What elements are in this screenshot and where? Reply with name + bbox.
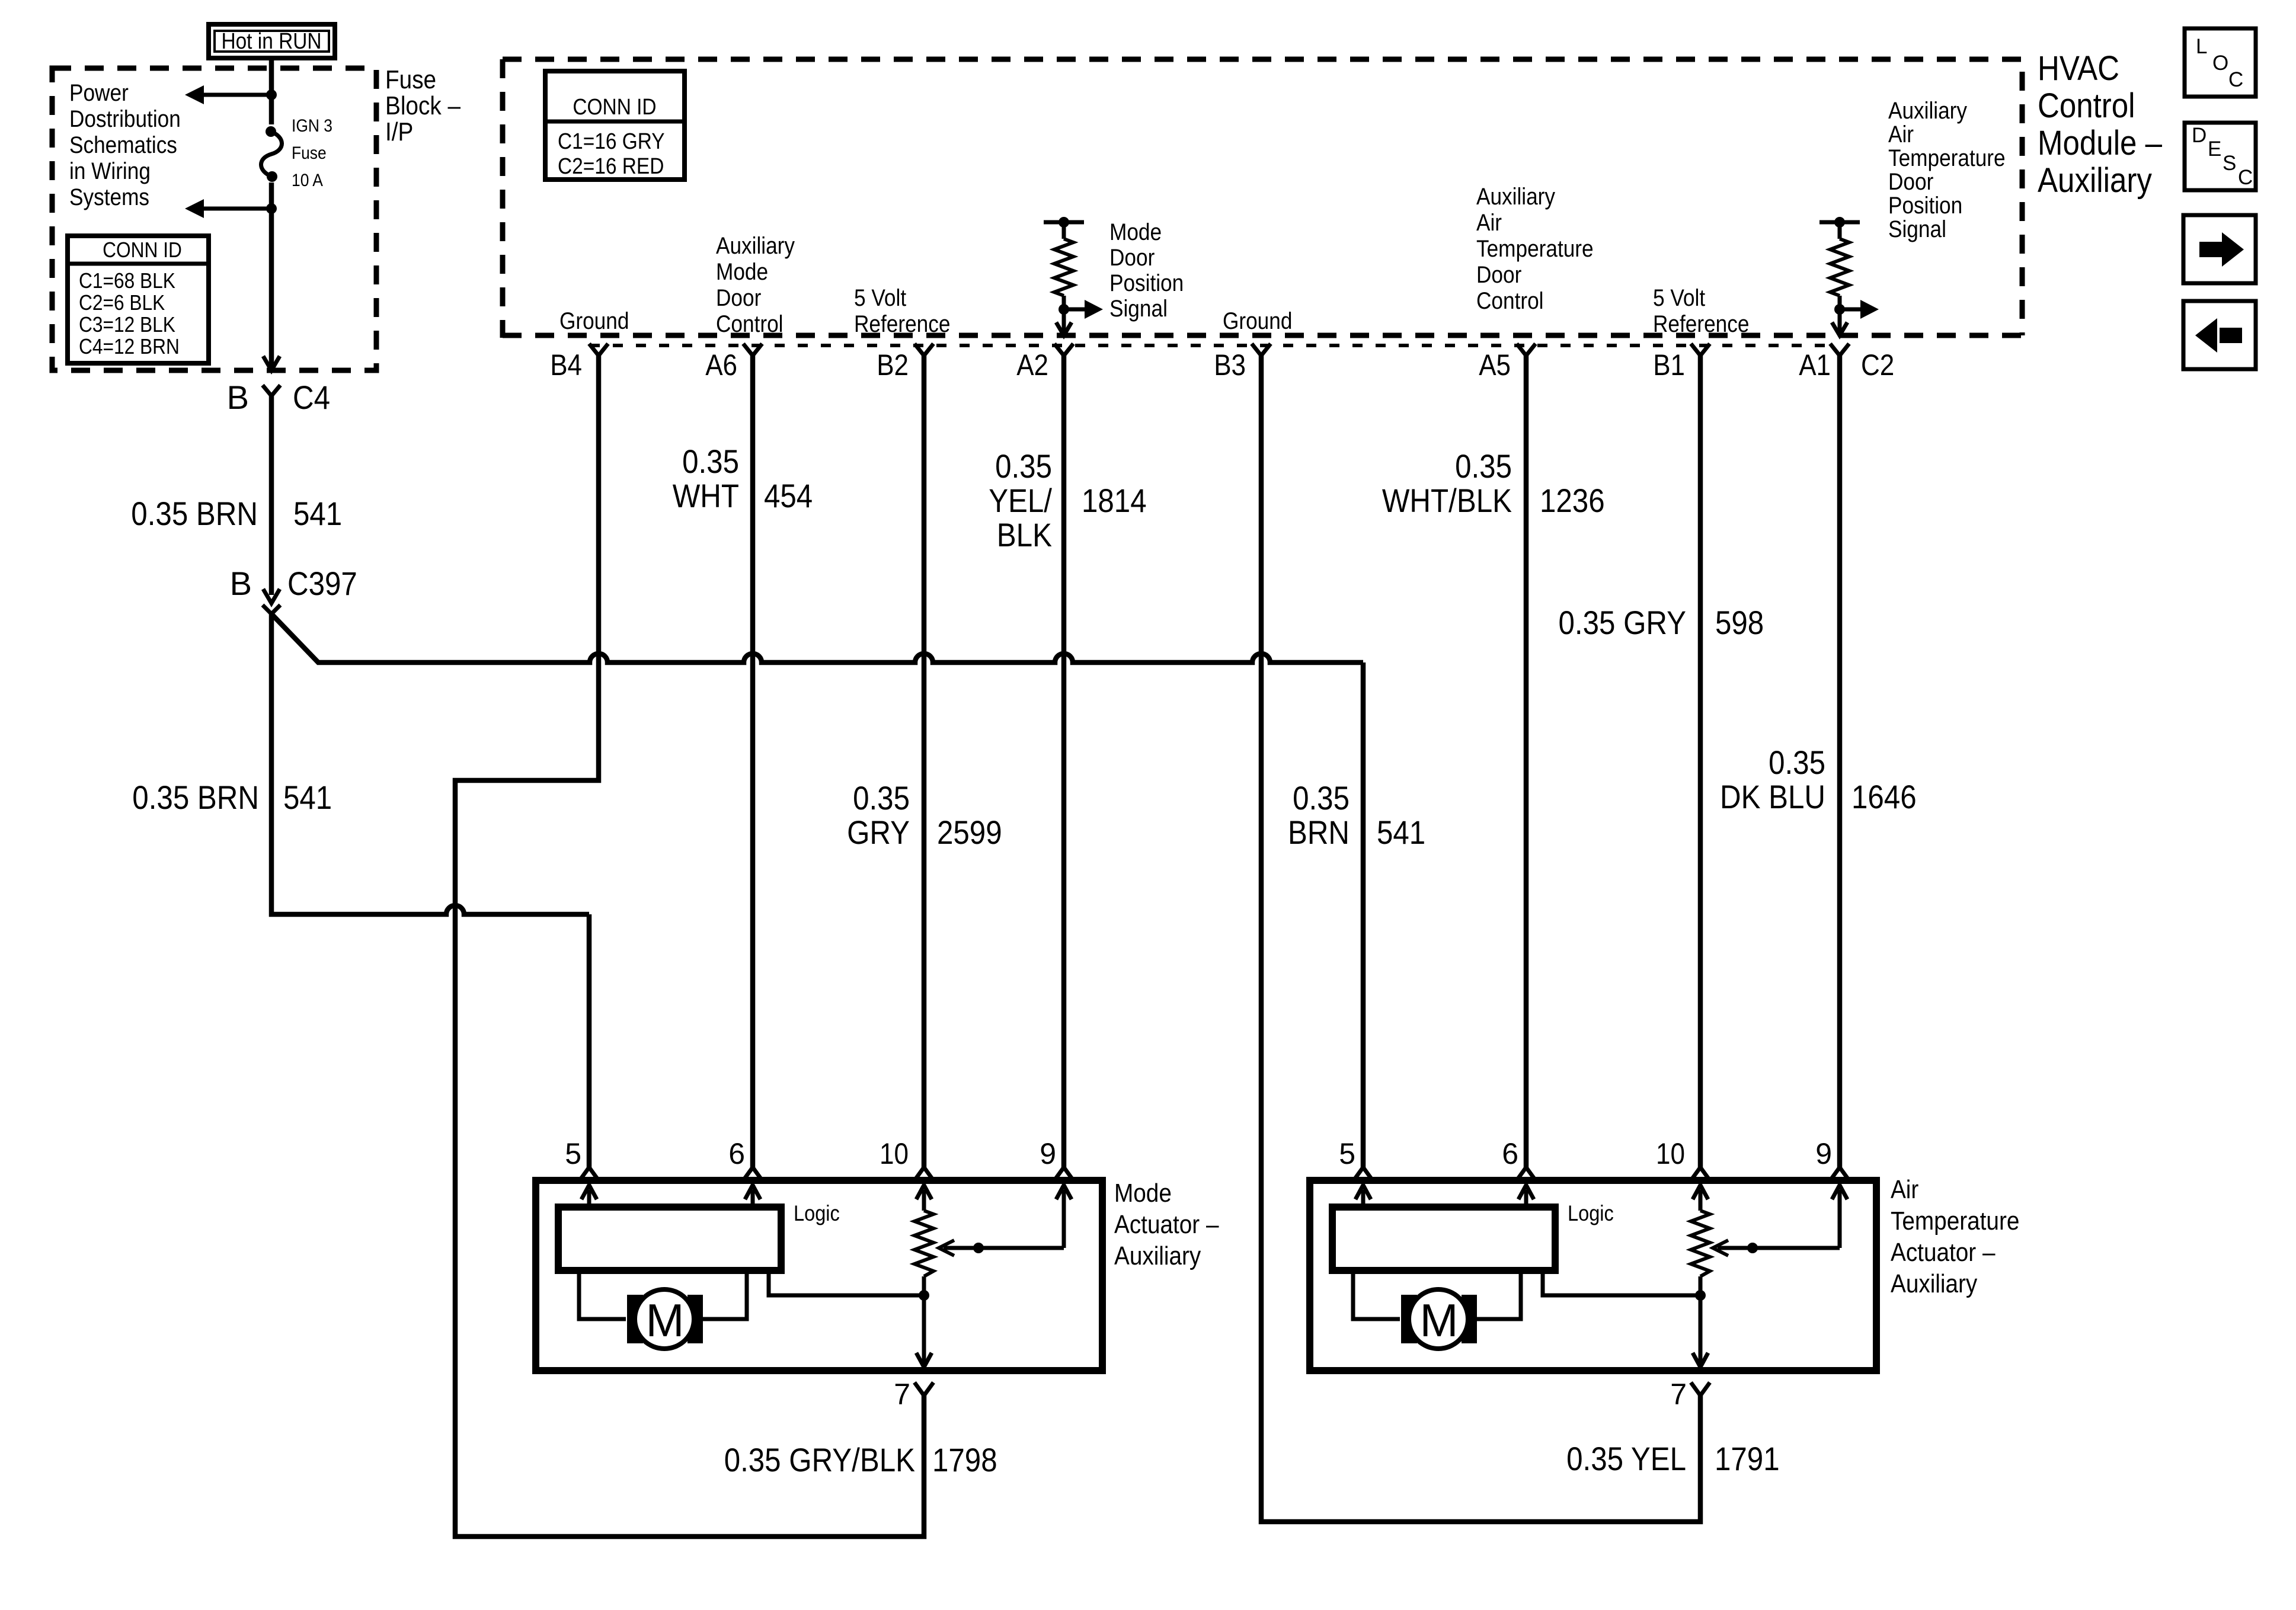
svg-text:Temperature: Temperature bbox=[1891, 1206, 2019, 1235]
svg-text:O: O bbox=[2212, 52, 2228, 75]
svg-text:L: L bbox=[2196, 35, 2207, 58]
svg-text:Schematics: Schematics bbox=[69, 132, 177, 158]
svg-text:10: 10 bbox=[1656, 1137, 1685, 1170]
svg-text:7: 7 bbox=[894, 1378, 910, 1411]
svg-text:Hot in RUN: Hot in RUN bbox=[221, 29, 321, 54]
svg-text:HVAC: HVAC bbox=[2038, 49, 2119, 88]
svg-text:C4=12 BRN: C4=12 BRN bbox=[79, 334, 180, 359]
svg-text:A2: A2 bbox=[1016, 348, 1048, 382]
svg-text:CONN ID: CONN ID bbox=[573, 95, 656, 120]
svg-text:in Wiring: in Wiring bbox=[69, 158, 151, 184]
svg-text:2599: 2599 bbox=[937, 814, 1002, 851]
svg-text:Logic: Logic bbox=[1568, 1201, 1614, 1225]
svg-text:Temperature: Temperature bbox=[1476, 236, 1594, 262]
svg-text:Dostribution: Dostribution bbox=[69, 106, 181, 132]
svg-text:C1=16 GRY: C1=16 GRY bbox=[558, 129, 665, 154]
svg-text:0.35: 0.35 bbox=[853, 779, 910, 817]
svg-text:Actuator –: Actuator – bbox=[1891, 1238, 1996, 1267]
svg-text:Auxiliary: Auxiliary bbox=[1891, 1269, 1977, 1298]
svg-text:A1: A1 bbox=[1799, 348, 1831, 382]
svg-text:Control: Control bbox=[716, 311, 784, 337]
svg-text:GRY: GRY bbox=[847, 814, 910, 851]
svg-text:454: 454 bbox=[764, 477, 813, 514]
svg-text:Door: Door bbox=[1888, 169, 1933, 195]
svg-text:Position: Position bbox=[1109, 270, 1184, 296]
svg-text:7: 7 bbox=[1670, 1378, 1687, 1411]
svg-text:CONN ID: CONN ID bbox=[103, 238, 182, 262]
svg-text:9: 9 bbox=[1815, 1137, 1832, 1170]
svg-text:Module –: Module – bbox=[2038, 124, 2163, 162]
svg-text:Fuse: Fuse bbox=[292, 143, 327, 163]
svg-text:Auxiliary: Auxiliary bbox=[1476, 184, 1555, 210]
svg-text:B: B bbox=[230, 565, 252, 602]
svg-text:0.35 BRN: 0.35 BRN bbox=[132, 779, 259, 816]
svg-text:Position: Position bbox=[1888, 193, 1962, 219]
svg-text:D: D bbox=[2192, 124, 2207, 147]
svg-text:0.35: 0.35 bbox=[1293, 779, 1350, 817]
svg-text:Auxiliary: Auxiliary bbox=[716, 233, 795, 259]
svg-text:C397: C397 bbox=[287, 565, 357, 602]
svg-text:Door: Door bbox=[716, 285, 761, 311]
svg-text:Ground: Ground bbox=[559, 308, 629, 334]
svg-text:B1: B1 bbox=[1653, 348, 1685, 382]
svg-text:6: 6 bbox=[1502, 1137, 1518, 1170]
svg-text:C: C bbox=[2238, 166, 2253, 189]
svg-text:IGN 3: IGN 3 bbox=[292, 116, 332, 136]
svg-text:Systems: Systems bbox=[69, 184, 149, 210]
svg-text:6: 6 bbox=[728, 1137, 745, 1170]
svg-text:Mode: Mode bbox=[716, 259, 768, 285]
svg-text:541: 541 bbox=[293, 495, 342, 532]
svg-text:M: M bbox=[646, 1294, 685, 1346]
svg-text:C2=16 RED: C2=16 RED bbox=[558, 154, 664, 179]
svg-text:Temperature: Temperature bbox=[1888, 145, 2006, 171]
svg-text:M: M bbox=[1420, 1294, 1459, 1346]
svg-text:C1=68 BLK: C1=68 BLK bbox=[79, 268, 175, 293]
svg-text:Power: Power bbox=[69, 80, 129, 106]
svg-text:598: 598 bbox=[1715, 604, 1764, 641]
svg-text:B4: B4 bbox=[550, 348, 582, 382]
svg-text:WHT/BLK: WHT/BLK bbox=[1382, 482, 1512, 519]
svg-text:S: S bbox=[2223, 152, 2236, 175]
svg-text:Block –: Block – bbox=[385, 91, 461, 120]
svg-text:Control: Control bbox=[2038, 87, 2135, 125]
svg-text:Air: Air bbox=[1476, 210, 1502, 236]
svg-text:B3: B3 bbox=[1214, 348, 1246, 382]
svg-text:A5: A5 bbox=[1479, 348, 1511, 382]
svg-text:0.35: 0.35 bbox=[1455, 447, 1512, 485]
svg-text:C2: C2 bbox=[1861, 348, 1894, 382]
svg-text:Reference: Reference bbox=[854, 311, 950, 337]
svg-text:5: 5 bbox=[1339, 1137, 1355, 1170]
svg-text:BLK: BLK bbox=[997, 516, 1052, 553]
svg-text:Control: Control bbox=[1476, 288, 1544, 314]
svg-text:WHT: WHT bbox=[673, 477, 739, 514]
svg-text:C4: C4 bbox=[293, 379, 330, 416]
svg-text:Auxiliary: Auxiliary bbox=[2038, 161, 2152, 200]
svg-text:541: 541 bbox=[283, 779, 332, 816]
svg-text:5: 5 bbox=[565, 1137, 581, 1170]
svg-text:C2=6 BLK: C2=6 BLK bbox=[79, 290, 165, 315]
svg-text:A6: A6 bbox=[705, 348, 737, 382]
svg-text:C: C bbox=[2228, 68, 2243, 91]
svg-text:Mode: Mode bbox=[1114, 1179, 1172, 1208]
svg-text:B2: B2 bbox=[877, 348, 909, 382]
svg-text:0.35 BRN: 0.35 BRN bbox=[131, 495, 258, 532]
svg-text:DK BLU: DK BLU bbox=[1720, 778, 1825, 815]
svg-text:Air: Air bbox=[1891, 1175, 1918, 1204]
svg-text:Logic: Logic bbox=[794, 1201, 840, 1225]
svg-text:0.35: 0.35 bbox=[995, 447, 1052, 485]
svg-text:Mode: Mode bbox=[1109, 219, 1162, 245]
svg-text:0.35 YEL: 0.35 YEL bbox=[1566, 1440, 1686, 1477]
svg-text:9: 9 bbox=[1040, 1137, 1056, 1170]
svg-text:1814: 1814 bbox=[1082, 482, 1147, 519]
svg-text:BRN: BRN bbox=[1288, 814, 1350, 851]
svg-text:1236: 1236 bbox=[1540, 482, 1605, 519]
svg-text:1791: 1791 bbox=[1715, 1440, 1780, 1477]
svg-text:5 Volt: 5 Volt bbox=[1653, 285, 1705, 311]
svg-text:0.35: 0.35 bbox=[1769, 744, 1825, 781]
svg-text:Actuator –: Actuator – bbox=[1114, 1210, 1219, 1239]
svg-text:C3=12 BLK: C3=12 BLK bbox=[79, 312, 175, 337]
svg-text:Fuse: Fuse bbox=[385, 65, 436, 94]
svg-text:Ground: Ground bbox=[1223, 308, 1292, 334]
svg-text:Door: Door bbox=[1476, 262, 1521, 288]
svg-text:Door: Door bbox=[1109, 245, 1155, 271]
svg-text:0.35: 0.35 bbox=[682, 443, 739, 480]
svg-text:Air: Air bbox=[1888, 121, 1914, 148]
svg-text:0.35 GRY: 0.35 GRY bbox=[1559, 604, 1687, 641]
svg-text:10: 10 bbox=[880, 1137, 909, 1170]
svg-text:Auxiliary: Auxiliary bbox=[1888, 98, 1967, 124]
svg-text:YEL/: YEL/ bbox=[989, 482, 1052, 519]
svg-text:1646: 1646 bbox=[1851, 778, 1917, 815]
svg-text:Signal: Signal bbox=[1888, 216, 1946, 242]
svg-text:Auxiliary: Auxiliary bbox=[1114, 1241, 1201, 1270]
svg-text:10 A: 10 A bbox=[292, 171, 323, 190]
svg-text:B: B bbox=[227, 379, 249, 416]
svg-text:0.35 GRY/BLK: 0.35 GRY/BLK bbox=[724, 1441, 915, 1478]
svg-text:Reference: Reference bbox=[1653, 311, 1749, 337]
svg-text:1798: 1798 bbox=[932, 1441, 997, 1478]
svg-text:541: 541 bbox=[1377, 814, 1425, 851]
svg-text:5 Volt: 5 Volt bbox=[854, 285, 906, 311]
svg-text:I/P: I/P bbox=[385, 117, 413, 146]
svg-text:Signal: Signal bbox=[1109, 296, 1168, 322]
svg-text:E: E bbox=[2208, 137, 2221, 161]
